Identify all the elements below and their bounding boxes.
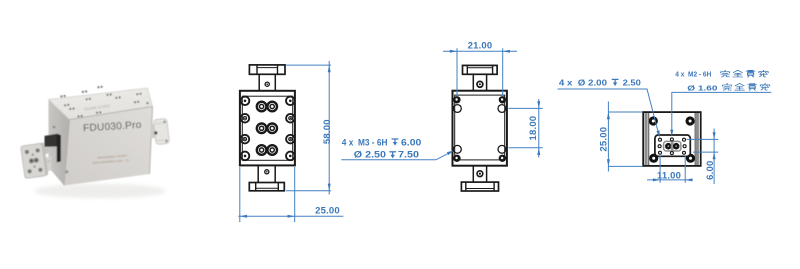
callout 4x M2-6H through bbox=[670, 70, 771, 137]
left chamfer band bbox=[645, 113, 648, 165]
right edge line bbox=[150, 107, 153, 175]
center pair row3 bbox=[257, 145, 277, 155]
socket right bbox=[672, 141, 681, 151]
svg-text:11.00: 11.00 bbox=[657, 170, 681, 181]
top neck left wire bbox=[258, 74, 260, 91]
body outline bbox=[643, 112, 701, 166]
bottom neck hole bbox=[265, 170, 269, 174]
front-left vertical edge bbox=[64, 120, 70, 186]
dimension 58.00 bbox=[286, 61, 333, 195]
bottom flange bar inner line bbox=[256, 187, 279, 189]
center pair row2 bbox=[257, 124, 277, 134]
svg-text:18.00: 18.00 bbox=[528, 116, 539, 141]
svg-text:25.00: 25.00 bbox=[599, 127, 610, 152]
side hole right upper bbox=[286, 114, 295, 123]
flange plate bbox=[655, 135, 690, 156]
bottom flange bar right cap bbox=[493, 182, 495, 191]
top flange bar left cap bbox=[466, 65, 468, 74]
dimension 25.00 bbox=[238, 167, 343, 222]
side hole left upper bbox=[241, 114, 250, 123]
threaded hole top-left bbox=[453, 96, 460, 103]
center pair row1 bbox=[257, 102, 277, 112]
leader wire bbox=[341, 151, 452, 160]
top flange bar inner line bbox=[467, 67, 492, 69]
front face bbox=[64, 107, 153, 186]
svg-text:4 x M3 - 6H: 4 x M3 - 6H bbox=[342, 136, 388, 147]
mount hole top-left bbox=[649, 116, 658, 125]
top flange bar right cap bbox=[492, 65, 494, 74]
callout 4x M3-6H depth 6.00 bbox=[341, 136, 454, 160]
flange center holes bbox=[29, 158, 35, 164]
side hole right lower bbox=[286, 135, 295, 144]
top flange bar right cap bbox=[277, 65, 279, 74]
front top edge line bbox=[70, 107, 153, 120]
top flange bar bbox=[249, 65, 285, 74]
side hole left lower bbox=[241, 135, 250, 144]
callout 4x dia 2.00 depth 2.50 bbox=[558, 78, 660, 138]
mount hole bottom-right bbox=[686, 154, 695, 163]
dimension 25.00 view3 bbox=[599, 102, 643, 172]
hole bottom-right bbox=[498, 145, 506, 153]
threaded hole bottom-right bbox=[499, 155, 506, 162]
right block nub bbox=[151, 124, 158, 138]
svg-text:4 x M2 - 6H: 4 x M2 - 6H bbox=[675, 70, 711, 79]
bottom flange bar bbox=[461, 182, 498, 191]
svg-text:2.50: 2.50 bbox=[623, 78, 641, 88]
mount hole top-right bbox=[686, 116, 695, 125]
svg-text:6.00: 6.00 bbox=[705, 161, 716, 180]
right block bbox=[153, 118, 170, 144]
leader wire bbox=[672, 92, 772, 133]
svg-text:58.00: 58.00 bbox=[322, 119, 333, 144]
svg-text:4 x Ø 2.00: 4 x Ø 2.00 bbox=[559, 78, 607, 88]
small hole grid bbox=[658, 138, 686, 155]
dimension 18.00 bbox=[508, 99, 542, 158]
top neck hole bbox=[477, 81, 483, 87]
left face screw bbox=[53, 126, 56, 129]
socket left bbox=[664, 141, 673, 151]
corner hole top-left bbox=[241, 97, 250, 106]
top flange bar left cap bbox=[256, 65, 258, 74]
bottom flange bar right cap bbox=[277, 183, 279, 191]
flange plate bbox=[21, 143, 49, 179]
bottom neck right wire bbox=[274, 165, 276, 182]
right chamfer band bbox=[696, 113, 699, 165]
corner hole bottom-right bbox=[286, 152, 295, 161]
bottom neck left wire bbox=[257, 165, 259, 182]
mount hole bottom-left bbox=[649, 154, 658, 163]
body outline bbox=[453, 91, 507, 166]
shaft upper bbox=[38, 142, 49, 156]
top neck right wire bbox=[486, 74, 488, 90]
top neck left wire bbox=[472, 74, 474, 90]
corner hole top-right bbox=[286, 97, 295, 106]
hole top-left bbox=[454, 105, 462, 113]
bottom flange bar left cap bbox=[465, 182, 467, 191]
flange corner holes bbox=[25, 150, 30, 155]
inner plate outline bbox=[242, 96, 292, 160]
corner hole bottom-left bbox=[241, 152, 250, 161]
svg-text:Ø 1.60: Ø 1.60 bbox=[687, 83, 717, 92]
svg-text:7.50: 7.50 bbox=[398, 148, 419, 159]
inner plate outline bbox=[455, 95, 505, 160]
svg-text:25.00: 25.00 bbox=[315, 206, 340, 217]
top face hole pairs bbox=[60, 86, 148, 118]
top flange bar inner line bbox=[257, 67, 278, 69]
left face bbox=[49, 100, 70, 186]
svg-text:21.00: 21.00 bbox=[468, 41, 493, 52]
bottom flange bar left cap bbox=[255, 183, 257, 191]
top flange bar bbox=[463, 65, 498, 74]
threaded hole bottom-left bbox=[453, 155, 460, 162]
leader wire bbox=[558, 89, 659, 135]
dimension 11.00 bbox=[647, 156, 693, 183]
shadow bbox=[34, 184, 166, 198]
bottom neck left wire bbox=[472, 166, 474, 182]
dimension 21.00 bbox=[443, 41, 517, 97]
hole bottom-left bbox=[454, 145, 462, 153]
dimension 6.00 bbox=[687, 129, 719, 185]
front face screw hole bbox=[65, 170, 68, 173]
top neck right wire bbox=[274, 74, 276, 91]
bottom neck right wire bbox=[486, 166, 488, 182]
bottom flange bar bbox=[249, 183, 284, 191]
hole top-right bbox=[498, 105, 506, 113]
svg-text:6.00: 6.00 bbox=[401, 136, 421, 147]
bottom neck hole bbox=[477, 171, 483, 177]
top face bbox=[49, 88, 153, 120]
top neck hole bbox=[265, 82, 269, 86]
bottom flange bar inner line bbox=[466, 188, 494, 190]
threaded hole top-right bbox=[499, 96, 506, 103]
svg-text:Ø 2.50: Ø 2.50 bbox=[354, 148, 386, 159]
shaft lower bbox=[38, 157, 52, 173]
body outline bbox=[240, 91, 295, 166]
black clamp block bbox=[45, 134, 59, 147]
